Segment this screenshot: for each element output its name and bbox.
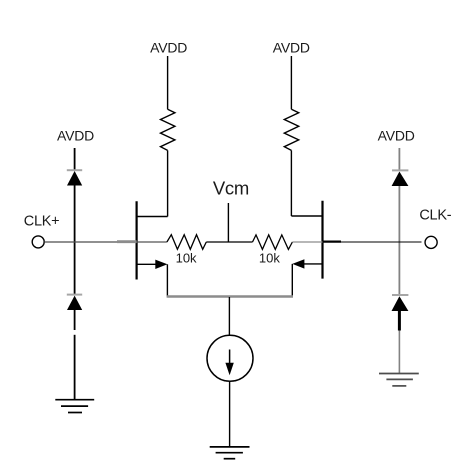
svg-text:Vcm: Vcm: [213, 177, 249, 198]
svg-text:10k: 10k: [259, 251, 280, 266]
svg-text:AVDD: AVDD: [378, 127, 415, 143]
svg-text:AVDD: AVDD: [150, 39, 187, 55]
svg-text:AVDD: AVDD: [57, 127, 94, 143]
svg-text:CLK-: CLK-: [419, 207, 451, 223]
svg-text:AVDD: AVDD: [273, 39, 310, 55]
svg-text:CLK+: CLK+: [24, 213, 59, 229]
svg-text:10k: 10k: [176, 251, 197, 266]
